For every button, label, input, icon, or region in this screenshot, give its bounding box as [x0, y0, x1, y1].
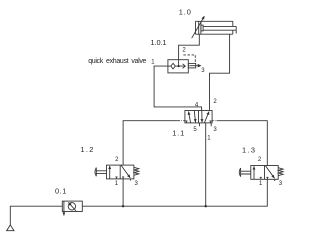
pilot line valve 1.1 to valve 1.3	[218, 121, 267, 166]
svg-text:1: 1	[207, 135, 211, 141]
wire valve 1.1 port 1 to supply line	[205, 123, 207, 206]
svg-text:1.2: 1.2	[80, 145, 93, 154]
wire cylinder left port to quick exhaust valve port 2	[179, 34, 200, 60]
wire cylinder right port down to valve 1.1 port 2	[210, 34, 230, 110]
svg-text:5: 5	[193, 127, 197, 133]
svg-text:3: 3	[135, 181, 139, 187]
svg-text:3: 3	[201, 68, 205, 74]
cylinder 1.0 cushioning arrow	[192, 16, 205, 38]
svg-text:2: 2	[213, 99, 217, 105]
svg-text:2: 2	[115, 157, 119, 163]
svg-text:1.0: 1.0	[179, 8, 191, 17]
svg-text:quick exhaust valve: quick exhaust valve	[88, 58, 146, 65]
svg-text:4: 4	[195, 102, 199, 108]
svg-text:1.3: 1.3	[242, 145, 255, 154]
supply line wire	[82, 179, 267, 206]
cylinder 1.0 piston rod	[203, 26, 236, 33]
pilot line valve 1.2 to valve 1.1	[123, 121, 178, 165]
valve 1.1 5/2 impulse valve	[185, 111, 212, 123]
cylinder 1.0 body	[196, 21, 233, 34]
quick exhaust valve pilot dashed line	[183, 55, 195, 63]
valve 1.2 3/2 pushbutton valve	[95, 165, 139, 187]
svg-text:1.1: 1.1	[172, 128, 184, 137]
svg-text:3: 3	[213, 127, 217, 133]
svg-text:1.0.1: 1.0.1	[151, 38, 167, 47]
compressed air supply 0.1 source triangle	[7, 225, 14, 231]
service unit 0.1	[62, 201, 82, 216]
valve 1.1 pilot dash right	[212, 120, 218, 122]
valve 1.1 exhaust stubs ports 5 and 3	[200, 123, 212, 126]
svg-text:1: 1	[115, 181, 119, 187]
svg-text:1: 1	[151, 59, 155, 65]
valve 1.1 pilot dash left	[178, 120, 185, 122]
svg-text:2: 2	[182, 48, 186, 54]
svg-text:0.1: 0.1	[55, 186, 66, 195]
svg-text:2: 2	[258, 157, 262, 163]
valve 1.1 left box arrows	[185, 111, 195, 123]
junction dot at valve 1.1 supply	[205, 205, 207, 207]
valve 1.1 right box arrows	[202, 111, 212, 123]
junction dot at valve 1.2 supply	[122, 205, 124, 207]
wire air supply to service unit	[10, 206, 62, 225]
quick exhaust valve 1.0.1 body	[168, 60, 188, 73]
wire valve 1.2 port 1 to supply line	[122, 179, 124, 206]
wire quick exhaust valve port 1 to valve 1.1 port 4	[154, 66, 202, 110]
valve 1.3 3/2 pushbutton valve	[239, 166, 283, 188]
quick exhaust valve 1.0.1 exhaust port 3	[188, 63, 201, 68]
